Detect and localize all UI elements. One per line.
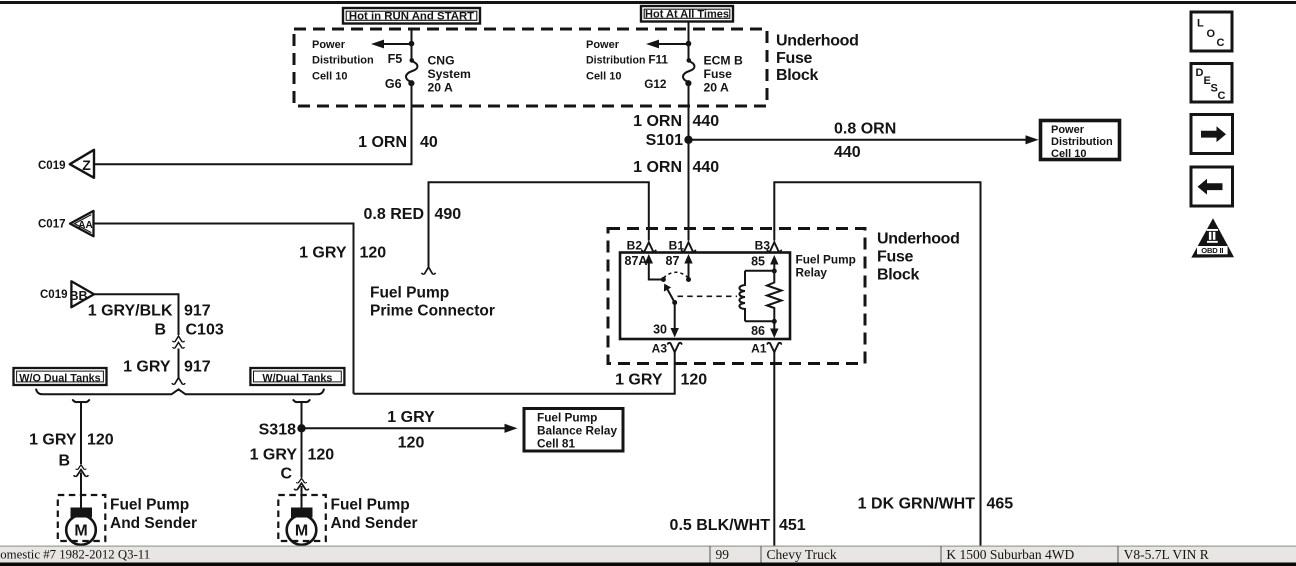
svg-text:120: 120 [681, 372, 708, 389]
svg-text:30: 30 [653, 323, 667, 337]
wire label 1 ORN 440 (below S101) [633, 159, 719, 176]
fuel pump and sender label (right) [331, 497, 418, 533]
sidebar button DESC [1191, 64, 1232, 103]
svg-text:M: M [295, 523, 308, 540]
svg-text:V8-5.7L VIN R: V8-5.7L VIN R [1124, 547, 1209, 562]
svg-text:87A: 87A [625, 254, 648, 268]
svg-text:1 GRY: 1 GRY [387, 409, 435, 426]
svg-text:1 ORN: 1 ORN [633, 113, 682, 130]
svg-text:C: C [280, 466, 292, 483]
svg-text:B1: B1 [669, 239, 685, 253]
svg-text:CNG: CNG [428, 54, 455, 68]
svg-text:Fuel Pump: Fuel Pump [110, 497, 189, 514]
svg-text:AA: AA [78, 220, 92, 231]
svg-text:W/Dual Tanks: W/Dual Tanks [262, 372, 332, 384]
wire label 1 GRY/BLK 917 [88, 303, 211, 320]
svg-text:C: C [1218, 90, 1226, 102]
svg-text:Cell 81: Cell 81 [537, 437, 575, 451]
svg-text:Z: Z [82, 157, 91, 173]
svg-text:1 GRY: 1 GRY [29, 432, 77, 449]
svg-text:0.8 RED: 0.8 RED [364, 206, 424, 223]
relay coil dashed link [678, 295, 738, 297]
svg-text:Underhood: Underhood [776, 33, 859, 50]
svg-text:S318: S318 [259, 422, 296, 439]
wire label 1 GRY 120 (tank C) [250, 447, 335, 464]
svg-text:Fuel Pump: Fuel Pump [331, 497, 410, 514]
svg-text:Power: Power [1051, 124, 1085, 136]
svg-text:440: 440 [834, 144, 861, 161]
relay contact dashed arc [663, 272, 688, 278]
label box "Hot At All Times" [641, 6, 733, 22]
underhood fuse block (relay) dashed box [608, 229, 865, 364]
svg-text:C103: C103 [186, 322, 224, 339]
relay terminal 87A arrow [625, 254, 666, 282]
wire: relay B3 up, right, down to bottom (DK GRN/WHT) [774, 182, 980, 546]
svg-text:465: 465 [987, 496, 1014, 513]
wire: S101 right to power distribution cell 10 [689, 135, 1039, 144]
splice S318 [259, 422, 306, 439]
wire: AA right then down to junction row [94, 224, 354, 394]
svg-text:F5: F5 [388, 52, 403, 66]
sidebar icon OBD II triangle [1191, 218, 1234, 257]
wire label 1 GRY 120 (tank B) [29, 432, 114, 449]
power distribution text (right fuse) [586, 39, 645, 83]
svg-text:BB: BB [69, 289, 87, 303]
wire: tank B wire upper [80, 402, 82, 464]
fuel pump relay box [620, 253, 790, 340]
svg-text:Distribution: Distribution [312, 55, 374, 67]
svg-text:C: C [1217, 37, 1225, 49]
fuel pump and sender (right) [278, 495, 326, 545]
wire: prime connector horizontal to relay B2 [429, 182, 649, 266]
svg-text:System: System [428, 67, 472, 81]
svg-text:Relay: Relay [796, 266, 828, 280]
svg-text:Fuel Pump: Fuel Pump [370, 285, 449, 302]
sidebar button back (left arrow) [1191, 167, 1233, 206]
svg-text:Fuel Pump: Fuel Pump [796, 253, 856, 267]
svg-text:B: B [154, 322, 166, 339]
connector C019 BB triangle [40, 281, 94, 307]
svg-text:C019: C019 [38, 160, 66, 172]
svg-text:1 ORN: 1 ORN [358, 134, 407, 151]
svg-text:Fuse: Fuse [776, 50, 813, 67]
fuel pump prime connector terminal [422, 267, 435, 274]
svg-text:C017: C017 [38, 219, 66, 231]
label box "Hot in RUN And START" [343, 8, 480, 24]
svg-text:Chevy Truck: Chevy Truck [767, 547, 837, 562]
svg-text:And Sender: And Sender [110, 515, 197, 532]
fuel pump prime connector label [370, 285, 495, 320]
svg-text:440: 440 [693, 113, 720, 130]
svg-text:W/O Dual Tanks: W/O Dual Tanks [19, 372, 100, 384]
svg-text:Fuel Pump: Fuel Pump [537, 411, 597, 425]
sidebar button LOC [1191, 12, 1232, 51]
svg-text:1 ORN: 1 ORN [633, 159, 682, 176]
svg-text:1 DK GRN/WHT: 1 DK GRN/WHT [858, 496, 976, 513]
svg-text:C019: C019 [40, 289, 68, 301]
relay coil winding [739, 271, 745, 322]
svg-text:451: 451 [779, 517, 806, 534]
relay switch arm [664, 284, 677, 305]
wire: tank C wire upper [301, 402, 303, 478]
svg-text:G12: G12 [644, 77, 667, 91]
pin A3 [652, 342, 682, 356]
wire label 1 ORN 40 [358, 134, 438, 151]
wire: tank B wire lower [80, 473, 82, 510]
pin A1 [751, 342, 781, 356]
svg-text:Cell 10: Cell 10 [312, 71, 347, 83]
svg-text:B2: B2 [627, 239, 643, 253]
relay terminal 86 arrow [751, 321, 778, 338]
svg-text:M: M [74, 523, 87, 540]
svg-text:OBD II: OBD II [1201, 246, 1223, 255]
fuel pump relay label [796, 253, 856, 280]
status bar texts [0, 547, 1209, 562]
wire label 1 GRY 120 (relay output) [615, 372, 707, 389]
svg-text:D: D [1196, 67, 1204, 79]
wire: C103 down to option brace [178, 349, 180, 378]
relay terminal 87 arrow [666, 254, 693, 282]
svg-text:Block: Block [776, 67, 818, 84]
svg-text:20 A: 20 A [704, 81, 729, 95]
ECM B Fuse 20 A label [704, 54, 743, 95]
arrow to power distribution (right) [646, 40, 691, 49]
svg-text:87: 87 [666, 254, 680, 268]
svg-text:917: 917 [184, 303, 211, 320]
option brace [36, 389, 324, 395]
fuel pump and sender (left) [58, 495, 106, 545]
wire end terminal above brace [172, 378, 184, 385]
relay coil loop top/bottom [745, 269, 777, 324]
svg-text:Hot At All Times: Hot At All Times [645, 8, 729, 20]
box power distribution cell 10 [1041, 121, 1120, 161]
wire label 1 GRY 120 (AA wire) [299, 245, 386, 262]
wire label 0.5 BLK/WHT 451 [670, 517, 806, 534]
svg-text:Balance Relay: Balance Relay [537, 424, 617, 438]
svg-text:Power: Power [586, 39, 620, 51]
option label box "W/O Dual Tanks" [14, 368, 107, 385]
relay terminal 30 arrow [653, 303, 679, 338]
svg-text:L: L [1197, 18, 1204, 30]
svg-text:440: 440 [693, 159, 720, 176]
svg-text:20 A: 20 A [428, 81, 453, 95]
connector terminal on tank C wire [297, 478, 307, 483]
wire label 0.8 ORN 440 [834, 121, 896, 162]
svg-text:120: 120 [87, 432, 114, 449]
svg-text:490: 490 [435, 206, 462, 223]
svg-text:1 GRY: 1 GRY [615, 372, 663, 389]
pin B1 [669, 239, 696, 253]
underhood fuse block (top) dashed box [294, 29, 767, 106]
wire label 1 GRY 120 (balance relay wire) [387, 409, 435, 452]
svg-text:Fuse: Fuse [704, 67, 733, 81]
svg-text:Hot in RUN And START: Hot in RUN And START [349, 10, 474, 22]
svg-text:B: B [58, 453, 70, 470]
svg-text:And Sender: And Sender [331, 515, 418, 532]
sidebar button next (right arrow) [1191, 115, 1233, 154]
svg-text:Underhood: Underhood [877, 231, 960, 248]
fuel pump and sender label (left) [110, 497, 197, 533]
svg-text:120: 120 [308, 447, 335, 464]
connector C019 Z triangle [38, 150, 94, 178]
svg-text:0.5 BLK/WHT: 0.5 BLK/WHT [670, 517, 771, 534]
svg-text:1 GRY: 1 GRY [123, 359, 171, 376]
svg-text:A3: A3 [652, 342, 668, 356]
arrow to power distribution (left) [371, 40, 414, 49]
svg-text:ECM B: ECM B [704, 54, 743, 68]
pin B3 [755, 239, 782, 253]
wire: G12 down to S101 and on to relay B1 [688, 83, 690, 241]
svg-text:Cell 10: Cell 10 [1051, 148, 1086, 160]
svg-text:40: 40 [420, 134, 438, 151]
svg-text:Fuse: Fuse [877, 249, 914, 266]
relay coil resistor zigzag [767, 271, 782, 321]
underhood fuse block (top) label [776, 33, 859, 85]
svg-text:917: 917 [184, 359, 211, 376]
svg-text:Cell 10: Cell 10 [586, 71, 621, 83]
svg-text:1 GRY: 1 GRY [299, 245, 347, 262]
svg-text:120: 120 [398, 435, 425, 452]
branch cap (W/dual tanks) [293, 400, 309, 402]
relay terminal 85 arrow [751, 255, 778, 272]
svg-text:K 1500 Suburban 4WD: K 1500 Suburban 4WD [946, 547, 1074, 562]
svg-text:0.8 ORN: 0.8 ORN [834, 121, 896, 138]
svg-text:1 GRY/BLK: 1 GRY/BLK [88, 303, 173, 320]
bottom status bar [0, 546, 1296, 566]
svg-text:G6: G6 [385, 77, 402, 91]
svg-text:99: 99 [716, 547, 730, 562]
splice S101 [646, 132, 693, 149]
wire: hot at all times vertical above fuse F11 [688, 22, 690, 61]
svg-text:Distribution: Distribution [586, 55, 645, 67]
option label box "W/Dual Tanks" [250, 368, 344, 385]
wire label 0.8 RED 490 [364, 206, 462, 223]
svg-text:Block: Block [877, 267, 919, 284]
svg-text:Distribution: Distribution [1051, 136, 1113, 148]
svg-text:Prime Connector: Prime Connector [370, 303, 495, 320]
wire label 1 GRY 917 [123, 359, 211, 376]
CNG System 20 A label [428, 54, 472, 95]
svg-text:F11: F11 [648, 53, 668, 67]
branch cap (W/O dual tanks) [73, 400, 89, 402]
svg-text:86: 86 [751, 324, 765, 338]
wire label 1 ORN 440 (above S101) [633, 113, 719, 130]
connector terminal on tank B wire [76, 465, 86, 470]
svg-text:O: O [1207, 28, 1216, 40]
fuse F5/G6 [385, 52, 418, 91]
wire: tank C wire lower [301, 486, 303, 509]
svg-text:A1: A1 [751, 342, 767, 356]
pin B2 [627, 239, 656, 253]
svg-text:85: 85 [751, 255, 765, 269]
wire: hot run vertical above fuse F5 [411, 29, 413, 60]
svg-text:B3: B3 [755, 239, 771, 253]
power distribution text (left fuse) [312, 39, 374, 83]
status bar separators [710, 546, 1118, 563]
wire: BB right then down to C103 [94, 294, 179, 335]
svg-text:Power: Power [312, 39, 346, 51]
svg-text:1 GRY: 1 GRY [250, 447, 298, 464]
top border rule [0, 1, 1296, 4]
fuse F11/G12 [644, 53, 694, 92]
in-line connector C103 pin B [154, 322, 223, 349]
svg-text:S101: S101 [646, 132, 683, 149]
wire: A3 down, left, up to AA junction [354, 352, 675, 394]
wire label 1 DK GRN/WHT 465 [858, 496, 1014, 513]
svg-text:120: 120 [360, 245, 387, 262]
connector C017 AA triangle [38, 211, 94, 236]
wire: S318 to fuel pump balance relay [302, 424, 518, 433]
wire: G6 down to corner, left to C019 Z [94, 83, 412, 164]
box fuel pump balance relay cell 81 [524, 409, 623, 452]
svg-text:Domestic #7 1982-2012 Q3-11: Domestic #7 1982-2012 Q3-11 [0, 548, 150, 562]
wire: A1 down to bottom (BLK/WHT) [773, 352, 775, 546]
underhood fuse block (relay) label [877, 231, 960, 284]
